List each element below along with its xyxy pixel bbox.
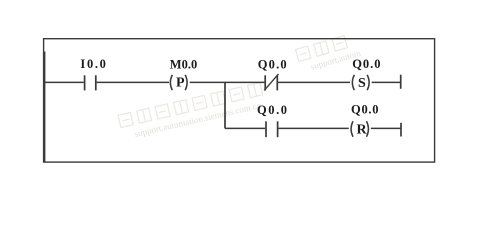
watermark tile B: [295, 32, 362, 74]
NO contact I0.0: [85, 75, 96, 90]
svg-text:P: P: [176, 76, 185, 91]
watermark tile A: [118, 83, 266, 142]
svg-text:R: R: [357, 122, 368, 137]
coil (S) Q0.0 set: [352, 75, 369, 90]
wire: [225, 127, 265, 129]
branch wire junction: [224, 82, 226, 128]
svg-text:Q0.0: Q0.0: [352, 57, 380, 71]
left power rail: [43, 52, 45, 162]
svg-text:Q0.0: Q0.0: [258, 57, 287, 71]
wire: [371, 127, 401, 129]
NC contact Q0.0: [264, 74, 278, 91]
wire: [190, 81, 265, 83]
wire: [44, 81, 84, 83]
wire: [372, 81, 401, 83]
NO contact Q0.0 rung 2: [266, 121, 278, 137]
wire: [97, 81, 169, 83]
coil (R) Q0.0 reset: [351, 121, 368, 137]
wire: [278, 127, 348, 129]
svg-text:M0.0: M0.0: [170, 57, 198, 71]
svg-text:I0.0: I0.0: [80, 57, 106, 71]
wire: [278, 81, 350, 83]
svg-text:Q0.0: Q0.0: [257, 103, 287, 117]
right rail stub rung 2: [400, 123, 402, 137]
coil (P) M0.0 positive edge: [170, 75, 187, 90]
svg-text:S: S: [358, 76, 366, 91]
svg-text:Q0.0: Q0.0: [351, 102, 379, 116]
svg-text:support.automation.siemens.com: support.automation.siemens.com.cn: [134, 100, 263, 139]
right rail stub rung 1: [400, 75, 402, 89]
